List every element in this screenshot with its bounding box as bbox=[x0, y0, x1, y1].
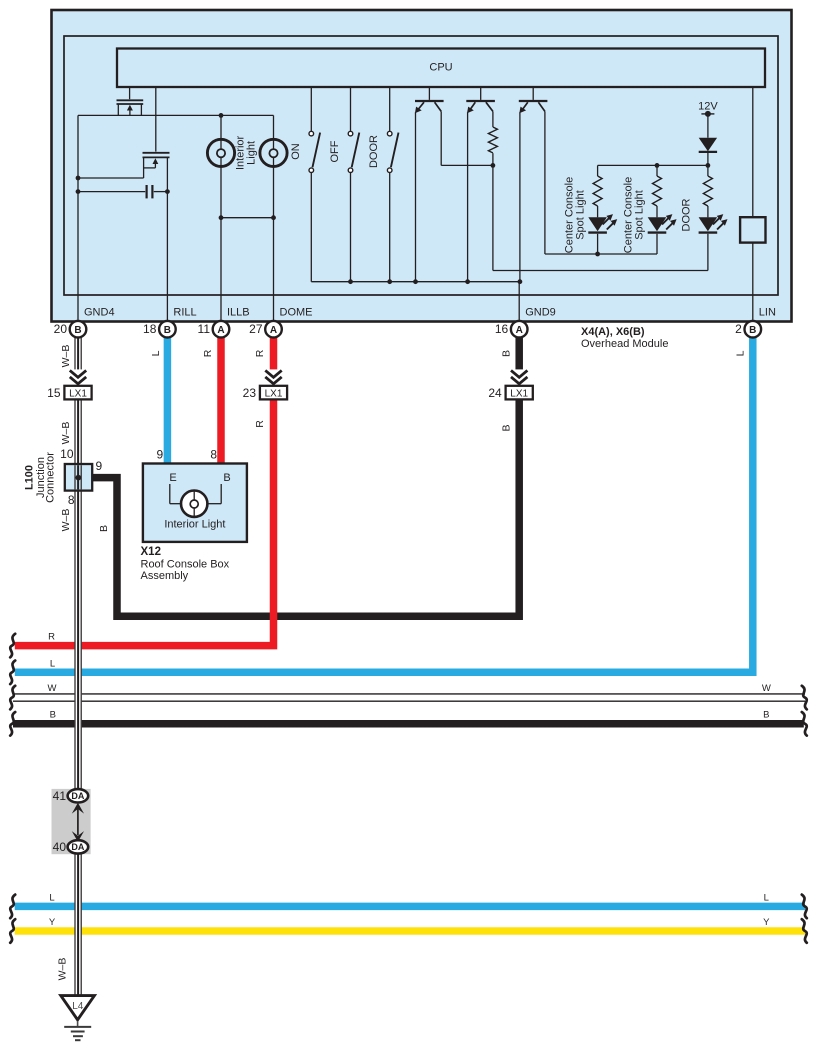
svg-text:A: A bbox=[217, 325, 224, 336]
svg-text:B: B bbox=[763, 709, 769, 720]
svg-text:B: B bbox=[501, 350, 513, 357]
svg-text:B: B bbox=[50, 709, 56, 720]
svg-text:CPU: CPU bbox=[429, 62, 452, 74]
svg-text:LIN: LIN bbox=[759, 307, 776, 319]
svg-text:9: 9 bbox=[96, 459, 103, 473]
svg-text:DOOR: DOOR bbox=[368, 135, 380, 168]
svg-text:E: E bbox=[169, 472, 176, 484]
svg-text:R: R bbox=[254, 349, 266, 357]
svg-text:DOME: DOME bbox=[280, 307, 313, 319]
svg-text:16: 16 bbox=[495, 322, 509, 336]
svg-text:27: 27 bbox=[249, 322, 263, 336]
svg-text:X12: X12 bbox=[141, 546, 161, 558]
svg-text:B: B bbox=[98, 525, 110, 532]
svg-text:18: 18 bbox=[143, 322, 157, 336]
svg-text:X4(A), X6(B): X4(A), X6(B) bbox=[581, 326, 645, 338]
svg-text:ON: ON bbox=[290, 143, 302, 160]
svg-text:12V: 12V bbox=[698, 100, 718, 112]
svg-text:GND4: GND4 bbox=[84, 307, 115, 319]
svg-text:B: B bbox=[501, 424, 513, 431]
svg-text:L: L bbox=[764, 892, 769, 903]
svg-text:RILL: RILL bbox=[173, 307, 196, 319]
svg-text:B: B bbox=[164, 325, 171, 336]
svg-text:Interior Light: Interior Light bbox=[164, 519, 225, 531]
svg-text:Connector: Connector bbox=[45, 452, 57, 503]
svg-text:R: R bbox=[254, 420, 266, 428]
svg-text:41: 41 bbox=[53, 789, 67, 803]
svg-text:B: B bbox=[74, 325, 81, 336]
svg-text:Roof Console Box: Roof Console Box bbox=[141, 559, 230, 571]
svg-text:W–B: W–B bbox=[60, 422, 72, 445]
svg-text:11: 11 bbox=[198, 322, 211, 336]
svg-text:B: B bbox=[749, 325, 756, 336]
svg-text:Overhead Module: Overhead Module bbox=[581, 338, 668, 350]
svg-text:Y: Y bbox=[763, 917, 770, 928]
svg-text:Y: Y bbox=[49, 917, 56, 928]
svg-text:A: A bbox=[270, 325, 277, 336]
svg-text:8: 8 bbox=[68, 493, 75, 507]
svg-text:23: 23 bbox=[243, 386, 257, 400]
svg-text:2: 2 bbox=[735, 322, 742, 336]
svg-text:LX1: LX1 bbox=[510, 388, 528, 399]
svg-text:Spot Light: Spot Light bbox=[574, 190, 586, 240]
svg-text:DA: DA bbox=[71, 791, 84, 801]
svg-text:W: W bbox=[762, 683, 771, 694]
svg-text:DA: DA bbox=[71, 842, 84, 852]
svg-text:B: B bbox=[223, 472, 230, 484]
svg-text:Light: Light bbox=[246, 141, 258, 165]
svg-text:L: L bbox=[735, 350, 747, 356]
svg-text:A: A bbox=[516, 325, 523, 336]
svg-text:W–B: W–B bbox=[57, 958, 69, 981]
svg-text:L: L bbox=[49, 892, 54, 903]
svg-text:20: 20 bbox=[54, 322, 68, 336]
svg-text:L100: L100 bbox=[24, 465, 36, 490]
svg-text:L: L bbox=[50, 659, 55, 670]
svg-text:W–B: W–B bbox=[60, 345, 72, 368]
svg-text:15: 15 bbox=[47, 386, 61, 400]
svg-text:L: L bbox=[150, 350, 162, 356]
svg-text:GND9: GND9 bbox=[525, 307, 556, 319]
svg-text:9: 9 bbox=[157, 448, 164, 462]
svg-text:R: R bbox=[202, 349, 214, 357]
svg-text:LX1: LX1 bbox=[265, 388, 283, 399]
svg-text:10: 10 bbox=[60, 447, 74, 461]
svg-text:DOOR: DOOR bbox=[680, 198, 692, 231]
svg-text:ILLB: ILLB bbox=[227, 307, 250, 319]
svg-text:Spot Light: Spot Light bbox=[634, 190, 646, 240]
svg-text:LX1: LX1 bbox=[69, 388, 87, 399]
svg-text:40: 40 bbox=[53, 840, 67, 854]
svg-text:OFF: OFF bbox=[329, 140, 341, 162]
svg-text:W: W bbox=[48, 683, 57, 694]
svg-text:8: 8 bbox=[210, 448, 217, 462]
svg-text:R: R bbox=[48, 631, 55, 642]
svg-text:Assembly: Assembly bbox=[141, 570, 189, 582]
svg-text:W–B: W–B bbox=[60, 509, 72, 532]
svg-text:24: 24 bbox=[488, 386, 502, 400]
svg-text:L4: L4 bbox=[72, 1001, 84, 1012]
